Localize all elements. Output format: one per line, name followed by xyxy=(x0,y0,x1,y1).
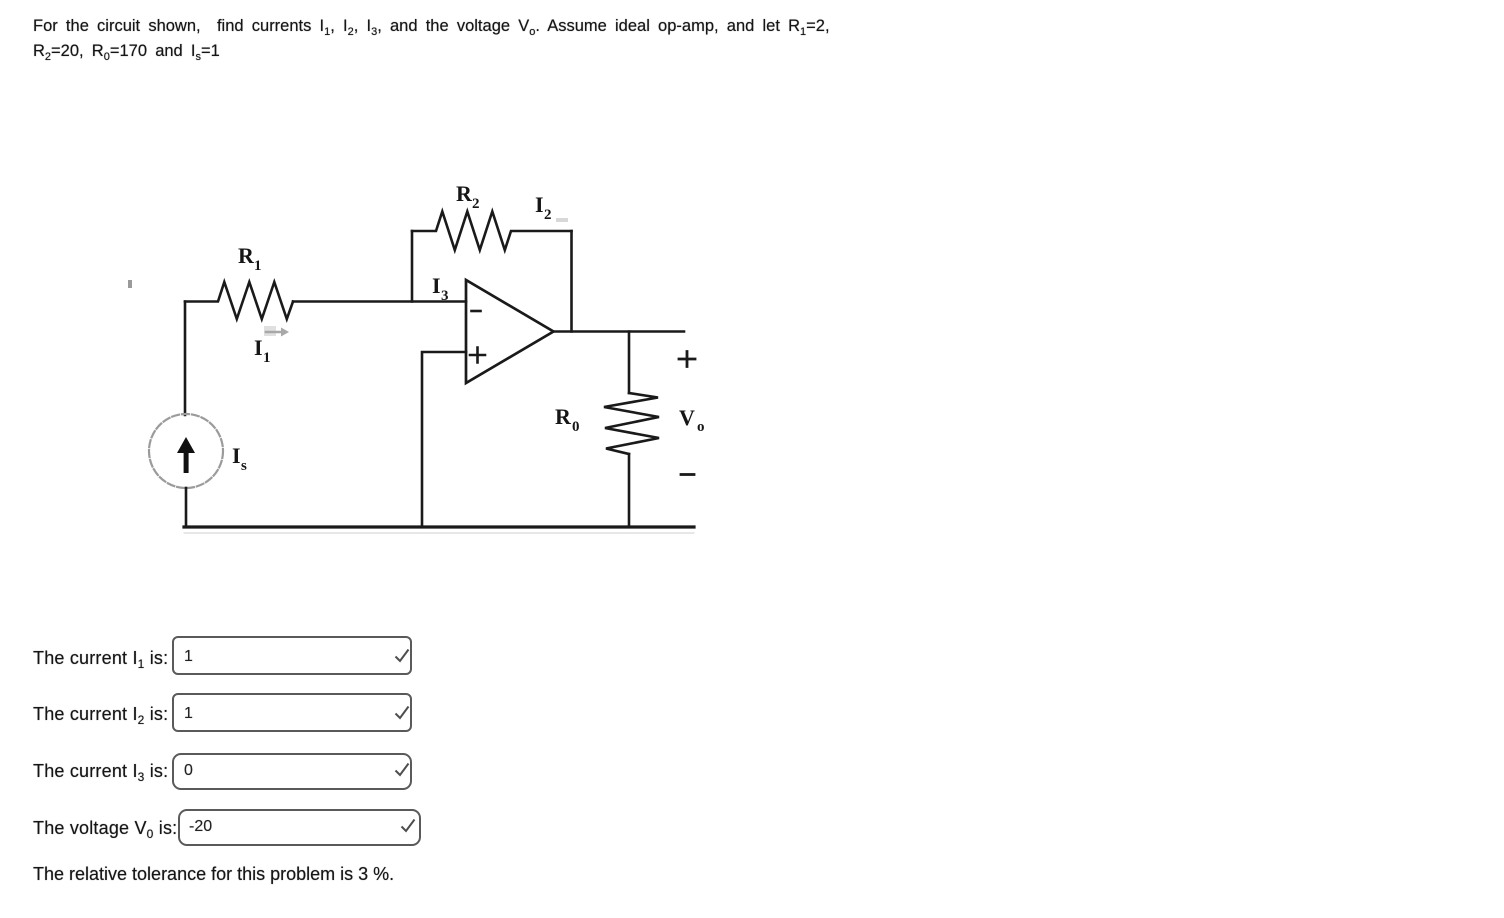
current source Is xyxy=(149,414,223,488)
resistor R0 xyxy=(604,393,659,454)
form rows xyxy=(33,648,168,669)
svg-text:1: 1 xyxy=(254,258,262,274)
svg-text:I: I xyxy=(232,443,241,468)
label I2 xyxy=(535,192,568,223)
svg-text:I: I xyxy=(432,273,441,298)
minus sign for Vo xyxy=(681,473,694,476)
label I1 xyxy=(254,335,271,366)
wire: current source to bottom rail xyxy=(185,488,188,527)
bottom rail wire xyxy=(184,527,694,533)
svg-text:I: I xyxy=(535,192,544,217)
svg-text:I: I xyxy=(254,335,263,360)
label V0 xyxy=(679,405,705,435)
svg-text:0: 0 xyxy=(572,419,580,435)
svg-text:R: R xyxy=(238,243,255,268)
svg-text:s: s xyxy=(241,458,247,474)
svg-text:1: 1 xyxy=(263,350,271,366)
svg-text:3: 3 xyxy=(441,288,449,304)
wire: output node down to R0 xyxy=(628,332,631,394)
wire: non-inverting input xyxy=(422,352,466,527)
svg-text:R: R xyxy=(456,181,473,206)
wire: left vertical from R1 down to current source xyxy=(184,302,187,416)
resistor R1 xyxy=(185,282,293,319)
label R1 xyxy=(238,243,262,274)
op-amp U1 xyxy=(466,280,554,383)
svg-text:2: 2 xyxy=(472,196,480,212)
resistor R2 xyxy=(412,212,572,251)
wire: op-amp output xyxy=(554,330,685,333)
wire: feedback right vertical down to output xyxy=(570,231,573,332)
svg-text:2: 2 xyxy=(544,207,552,223)
plus sign for Vo xyxy=(679,352,695,367)
svg-text:V: V xyxy=(679,405,695,430)
current arrow for I1 xyxy=(264,326,289,337)
stray tick mark xyxy=(128,280,132,288)
label I3 xyxy=(432,273,449,304)
wire: R1 to inverting input xyxy=(293,300,466,303)
wire: feedback left vertical (node at inverting input) xyxy=(411,231,414,302)
label R0 xyxy=(555,404,580,435)
label Is xyxy=(232,443,247,474)
svg-text:o: o xyxy=(697,419,705,435)
wire: R0 bottom lead xyxy=(628,454,631,527)
svg-text:R: R xyxy=(555,404,572,429)
label R2 xyxy=(456,181,480,212)
